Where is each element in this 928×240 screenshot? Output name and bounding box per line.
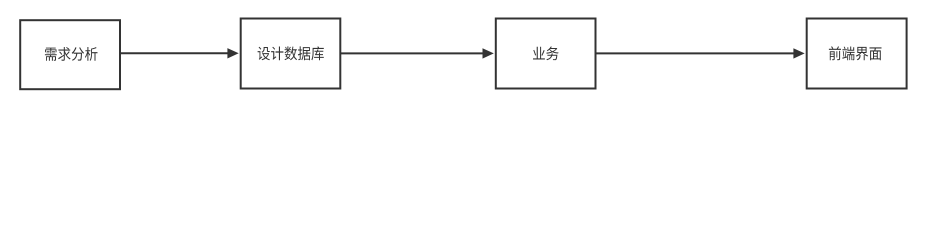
arrowhead into box 2: [227, 48, 238, 58]
label: 需求分析: [45, 47, 98, 61]
flowchart box 1: 需求分析 (requirements analysis): [20, 20, 120, 89]
wire: connector from box 3 to box 4: [596, 52, 796, 54]
label: 设计数据库: [258, 46, 324, 60]
wire: connector from box 1 to box 2: [120, 52, 229, 54]
label: 前端界面: [829, 46, 882, 60]
arrowhead into box 4: [793, 48, 804, 58]
flowchart box 3: 业务 (business): [496, 19, 596, 89]
label: 业务: [533, 47, 559, 61]
arrowhead into box 3: [483, 48, 494, 58]
flowchart box 4: 前端界面 (front-end UI): [807, 19, 907, 89]
flowchart box 2: 设计数据库 (design database): [241, 19, 341, 89]
wire: connector from box 2 to box 3: [340, 52, 484, 54]
